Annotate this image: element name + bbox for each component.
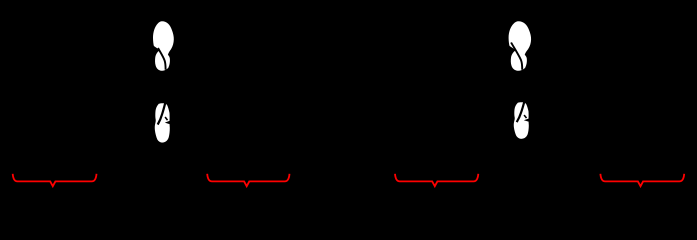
black slash across O1 neck: [158, 48, 166, 70]
red underbrace B1: [13, 174, 97, 186]
orbital O3 (right unit, upper): big balloon lobe + small back lobe: [509, 21, 531, 70]
arrowhead spur wedge on O2: [165, 121, 170, 125]
black curved arrow shaft across O2 small lobe: [158, 103, 166, 125]
red underbrace B2: [207, 174, 289, 186]
red underbrace B4: [600, 174, 684, 186]
orbital O4 (right unit, lower): small top lobe + big bottom lobe: [514, 102, 529, 139]
arrowhead barb tick on O4: [524, 115, 526, 118]
black curved arrow shaft across O4 small lobe: [517, 102, 525, 122]
arrowhead spur wedge on O4: [524, 118, 529, 121]
orbital O2 (left unit, lower): small top lobe + big bottom lobe: [155, 103, 170, 142]
red underbrace B3: [395, 174, 478, 186]
black slash across O3 neck: [511, 43, 522, 70]
orbital O1 (left unit, upper): big balloon lobe + small back lobe: [153, 21, 174, 70]
arrowhead barb tick on O2: [165, 117, 167, 120]
